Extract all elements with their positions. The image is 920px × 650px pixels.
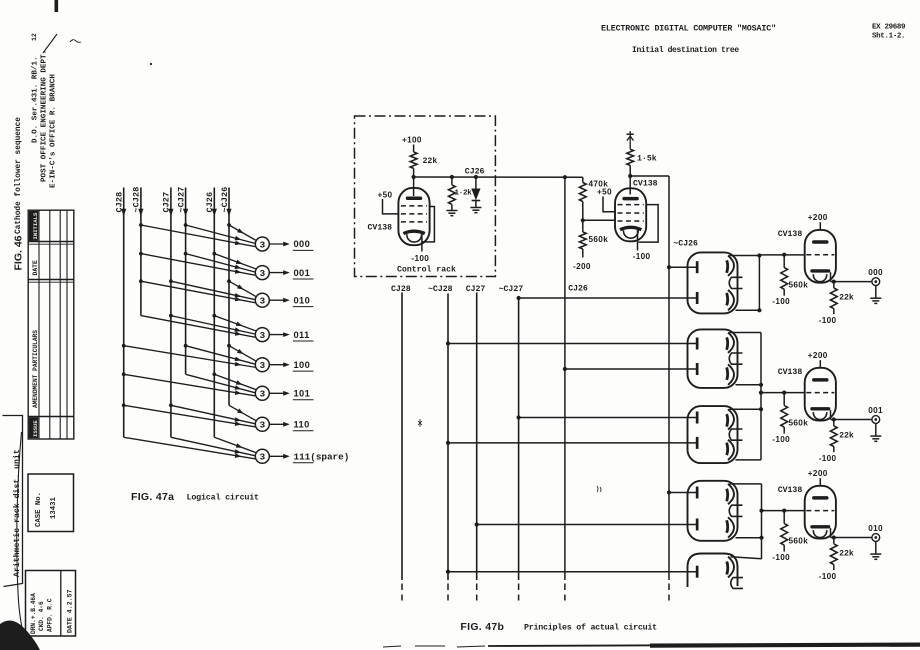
svg-text:22k: 22k xyxy=(839,431,854,441)
svg-text:-100: -100 xyxy=(819,572,837,581)
svg-text:1·2k: 1·2k xyxy=(455,190,473,198)
svg-text:010: 010 xyxy=(868,524,883,533)
wire: 22k to -100 stage 010 xyxy=(833,565,835,571)
wire: V3 cathode lead xyxy=(830,272,832,281)
wire: G4 lower cathode lead xyxy=(736,537,762,539)
wire: CJ28 to gate 101 xyxy=(122,372,256,396)
svg-text:001: 001 xyxy=(294,268,311,278)
wire: ~CJ27 to G3 anode 1 xyxy=(519,417,696,419)
gate circle 101 xyxy=(255,386,269,400)
svg-text:D.O. Ser.431. RB/1.: D.O. Ser.431. RB/1. xyxy=(32,56,40,143)
wire: grid node to R stage 010 xyxy=(783,511,785,524)
wire: ~CJ27 to gate 001 xyxy=(184,252,255,272)
wire: ~CJ28 continuation dashes xyxy=(447,584,449,601)
svg-text:560k: 560k xyxy=(789,537,809,546)
wire: V2 anode lead xyxy=(629,176,631,195)
ground (terminal 001) xyxy=(870,436,881,441)
svg-text:3: 3 xyxy=(259,420,265,431)
svg-text:CJ26: CJ26 xyxy=(205,192,215,213)
tube V3 CV138 (output cathode follower 000) xyxy=(805,230,836,283)
wire: node to D1 xyxy=(475,177,477,189)
gate circle 001 xyxy=(255,266,269,280)
svg-text:~CJ28: ~CJ28 xyxy=(132,187,142,213)
node: cathode/22k stage 000 xyxy=(832,280,836,284)
node: CJ26 bus tap xyxy=(563,175,567,179)
svg-text:22k: 22k xyxy=(839,293,854,303)
svg-text:000: 000 xyxy=(868,268,883,277)
svg-text:INITIALS: INITIALS xyxy=(32,212,39,239)
table header ISSUE (inverted cell) xyxy=(29,417,38,438)
output terminal 000 xyxy=(872,278,880,286)
svg-text:011: 011 xyxy=(294,330,310,340)
wire: V2 cathode lead xyxy=(637,230,639,251)
svg-text:-100: -100 xyxy=(411,254,429,263)
wire: output arrow 101 xyxy=(269,391,290,396)
svg-text:560k: 560k xyxy=(589,235,609,244)
wire: CJ26 to gate 101 xyxy=(212,372,255,389)
wire: G2 lower cathode lead xyxy=(736,384,762,386)
node: bus000 top xyxy=(757,253,761,257)
wire: node to R2 xyxy=(451,177,453,185)
resistor 22k (stage 001) xyxy=(830,426,837,447)
wire: cathode to terminal 010 xyxy=(831,537,873,539)
wire: grid line stage 000 xyxy=(759,254,804,256)
svg-text:FIG. 46: FIG. 46 xyxy=(13,235,25,270)
wire: CJ27 to gate 110 xyxy=(169,403,255,423)
wire: CJ27 continuation dashes xyxy=(476,584,478,601)
svg-text:000: 000 xyxy=(294,239,311,249)
wire: ~CJ27 to G1 anode 2 xyxy=(519,297,696,299)
wire: CJ26 to gate 111 xyxy=(214,437,255,452)
svg-text:CV138: CV138 xyxy=(633,179,658,188)
svg-text:~CJ27: ~CJ27 xyxy=(499,285,524,294)
svg-text:13431: 13431 xyxy=(50,496,58,519)
svg-text:CJ26: CJ26 xyxy=(465,168,485,177)
svg-text:FIG. 47a: FIG. 47a xyxy=(131,491,174,503)
wire: output arrow 011 xyxy=(269,332,290,337)
junction on CJ27 xyxy=(475,522,479,526)
svg-text:POST OFFICE ENGINEERING DEPT.: POST OFFICE ENGINEERING DEPT. xyxy=(41,50,49,182)
svg-text:560k: 560k xyxy=(789,281,809,290)
wire: bus line CJ27 xyxy=(476,293,478,581)
svg-text:~CJ26: ~CJ26 xyxy=(673,240,698,249)
resistor 560k (stage 000) xyxy=(781,268,788,290)
svg-text:CJ27: CJ27 xyxy=(162,192,172,213)
svg-text:FIG. 47b: FIG. 47b xyxy=(460,621,504,633)
speck xyxy=(70,40,81,43)
wire: CJ27 to gate 010 xyxy=(169,279,255,299)
svg-text:DRN.+.B.46A: DRN.+.B.46A xyxy=(30,593,37,634)
svg-text:Principles of actual circuit: Principles of actual circuit xyxy=(524,623,657,633)
wire: ~CJ28 to gate 001 xyxy=(139,252,255,276)
output terminal 010 xyxy=(872,534,880,542)
wire: ~CJ26 to gate 100 xyxy=(227,344,256,361)
resistor R4 560k xyxy=(579,232,586,249)
svg-text:3: 3 xyxy=(259,268,265,279)
wire: output arrow 000 xyxy=(269,242,290,247)
junction on ~CJ28 xyxy=(446,570,450,574)
wire: G3 upper cathode lead xyxy=(730,408,762,410)
wire: fig47a input line ~CJ27 xyxy=(183,188,188,375)
wire: output arrow 100 xyxy=(269,362,290,367)
svg-text:+100: +100 xyxy=(402,136,422,145)
svg-text:E-IN-C's OFFICE R. BRANCH: E-IN-C's OFFICE R. BRANCH xyxy=(50,74,58,188)
gate circle 011 xyxy=(255,328,269,342)
svg-text:22k: 22k xyxy=(423,156,438,166)
wire: CJ26 bus vertical xyxy=(564,177,566,580)
svg-text:+200: +200 xyxy=(808,213,828,222)
box: CASE No. 13431 xyxy=(28,474,74,532)
wire: ~CJ28 to G2 anode 1 xyxy=(448,343,696,345)
node label 100 xyxy=(293,360,314,371)
wire: fig47a input line ~CJ26 xyxy=(226,188,231,406)
resistor 22k (stage 000) xyxy=(830,288,837,309)
speck4 xyxy=(597,486,601,492)
node: 560k tap stage 001 xyxy=(782,391,786,395)
wire: terminal 000 to ground xyxy=(875,286,877,299)
svg-text:Logical circuit: Logical circuit xyxy=(187,493,260,503)
svg-text:3: 3 xyxy=(259,452,265,463)
node: bus001 grid tap xyxy=(759,391,763,395)
wire: +200 to V5 anode xyxy=(819,478,821,486)
wire: R3 to grid node xyxy=(582,202,584,233)
node: bus001/G3 upper xyxy=(759,407,763,411)
wire: terminal 010 to ground xyxy=(875,541,877,554)
ground (terminal 010) xyxy=(870,554,881,559)
wire: cathode to terminal 000 xyxy=(831,281,873,283)
svg-text:DATE: DATE xyxy=(32,260,39,276)
wire: G1 upper cathode lead xyxy=(730,255,760,257)
wire: ~CJ28 to G3 anode 2 xyxy=(448,442,696,444)
svg-text:110: 110 xyxy=(294,420,310,430)
gate tube G1 (double diode) xyxy=(688,252,743,313)
node label 010 xyxy=(293,295,314,306)
junction on ~CJ27 xyxy=(517,296,521,300)
speck2 xyxy=(150,63,152,65)
svg-text:CASE No.: CASE No. xyxy=(35,492,43,527)
svg-text:010: 010 xyxy=(294,295,311,305)
node: D1 tap xyxy=(474,175,478,179)
gate circle 100 xyxy=(255,358,269,372)
wire: 22k to -100 stage 000 xyxy=(833,309,835,315)
svg-text:CV138: CV138 xyxy=(368,224,393,233)
junction on ~CJ28 xyxy=(446,441,450,445)
wire: grid line stage 001 xyxy=(761,392,805,394)
wire: CJ26 output line xyxy=(414,176,583,178)
junction on ~CJ28 xyxy=(446,341,450,345)
wire: CJ26 bus continuation dashes xyxy=(564,584,566,601)
wire: ~CJ27 continuation dashes xyxy=(518,584,520,601)
svg-text:-100: -100 xyxy=(819,316,837,325)
wire: ~CJ28 to gate 000 xyxy=(139,223,255,247)
node: R2 tap xyxy=(450,175,454,179)
wire: CJ26 to G2 anode 2 xyxy=(565,368,696,370)
node: bus010 grid tap xyxy=(759,509,763,513)
gate circle 010 xyxy=(255,293,269,307)
resistor 560k (stage 010) xyxy=(781,524,788,546)
junction ~CJ26/pill4 xyxy=(667,490,671,494)
wire: ~CJ28 to gate 010 xyxy=(139,279,255,302)
svg-text:100: 100 xyxy=(294,360,311,370)
wire: ~CJ27 to gate 101 xyxy=(186,374,255,392)
wire: grid node to R stage 001 xyxy=(783,393,785,406)
wire: ~CJ26 to G4 anode 1 xyxy=(669,492,696,494)
wire: CJ28 continuation dashes xyxy=(401,584,403,601)
svg-text:~CJ27: ~CJ27 xyxy=(176,187,186,213)
gate circle 110 xyxy=(255,417,269,431)
wire: CJ27 to gate 011 xyxy=(169,314,255,334)
node: V1 anode / CJ26 origin xyxy=(412,175,416,179)
wire: output bus 001 xyxy=(760,333,762,460)
junction on ~CJ27 xyxy=(517,415,521,419)
wire: G2 upper cathode lead xyxy=(730,332,762,334)
wire: fig47a input line ~CJ28 xyxy=(138,188,143,316)
svg-text:EX 29689: EX 29689 xyxy=(872,24,906,32)
wire: ~CJ28 to G5 anode xyxy=(448,571,696,573)
diode D1 (crystal rectifier) xyxy=(471,189,480,201)
node: 560k tap stage 000 xyxy=(782,253,786,257)
svg-text:CV138: CV138 xyxy=(778,486,803,495)
gate circle 111 xyxy=(255,449,269,463)
svg-text:Control rack: Control rack xyxy=(397,265,456,275)
tube V2 (CV138 pentode) xyxy=(615,188,646,241)
gate tube G5 (half, continues off sheet) xyxy=(688,554,744,589)
svg-text:-100: -100 xyxy=(772,553,790,562)
wire: CJ26 to gate 001 xyxy=(212,252,255,269)
resistor R1 22k xyxy=(410,152,417,168)
node: bus001/G2 lower xyxy=(759,383,763,387)
wire: output arrow 110 xyxy=(269,422,290,427)
svg-text:560k: 560k xyxy=(789,419,809,428)
wire: bus line ~CJ27 xyxy=(518,296,520,580)
wire: ~CJ26 bus vertical xyxy=(668,176,670,580)
heavy bottom edge line xyxy=(383,645,920,647)
wire: G3 lower cathode lead xyxy=(736,459,762,461)
tube V5 CV138 (output cathode follower 010) xyxy=(805,486,836,539)
wire: 22k to -100 stage 001 xyxy=(833,447,835,453)
ground below R2 xyxy=(446,211,457,216)
svg-text:Cathode follower sequence: Cathode follower sequence xyxy=(15,117,23,234)
output terminal 001 xyxy=(872,416,880,424)
wire: G1 lower cathode lead xyxy=(736,309,760,311)
svg-text:CJ28: CJ28 xyxy=(391,285,411,294)
svg-text:CJ27: CJ27 xyxy=(466,285,486,294)
svg-text:+200: +200 xyxy=(808,469,828,478)
wire: ~CJ26 to G1 anode 1 xyxy=(669,266,696,268)
wire: fig47a input line CJ26 xyxy=(212,188,217,438)
wire: +50 to V2 screen xyxy=(603,197,615,212)
crease line xyxy=(17,432,27,646)
wire: ~CJ26 to gate 000 xyxy=(227,223,256,240)
svg-text:~CJ26: ~CJ26 xyxy=(220,187,230,213)
resistor R2 1·2k xyxy=(449,185,456,205)
ground below D1 xyxy=(470,208,481,213)
node label 000 xyxy=(293,239,314,250)
node: cathode/22k stage 001 xyxy=(832,417,836,421)
wire: bus line ~CJ28 xyxy=(447,294,449,581)
svg-text:~CJ28: ~CJ28 xyxy=(428,285,453,294)
wire: +100 to R1 xyxy=(413,145,415,153)
svg-text:ELECTRONIC DIGITAL COMPUTER "M: ELECTRONIC DIGITAL COMPUTER "MOSAIC" xyxy=(601,24,776,34)
svg-text:001: 001 xyxy=(868,406,883,415)
svg-text:CKD. 4-6: CKD. 4-6 xyxy=(38,601,45,631)
wire: CJ28 to gate 110 xyxy=(122,403,256,427)
wire: +50 to V1 grid xyxy=(383,199,399,214)
resistor 22k (stage 010) xyxy=(830,544,837,565)
svg-text:111(spare): 111(spare) xyxy=(294,452,350,463)
box: drawing approval (DRN/CKD/APFD/DATE) xyxy=(26,571,76,637)
wire: 22k lead stage 010 xyxy=(833,538,835,544)
wire: 22k lead stage 000 xyxy=(833,282,835,288)
wire: anode node to ~CJ26 bus xyxy=(630,175,669,177)
svg-text:3: 3 xyxy=(259,239,265,250)
node label 111(spare) xyxy=(293,452,349,463)
junction CJ26/pill2 xyxy=(563,367,567,371)
wire: V1 cathode lead xyxy=(421,234,423,252)
wire: ~CJ27 to gate 000 xyxy=(184,223,255,243)
amendment record table xyxy=(28,210,74,439)
table header INITIALS (inverted cell) xyxy=(29,211,38,241)
svg-text:+50: +50 xyxy=(597,188,612,197)
node: cathode/22k stage 010 xyxy=(832,535,836,539)
wire: ~CJ27 to gate 100 xyxy=(184,344,255,364)
wire: R5 to V2 anode node xyxy=(629,165,631,176)
control rack enclosure (dash-dot box) xyxy=(355,116,496,277)
wire: output bus 010 xyxy=(761,484,763,559)
wire: bus line CJ28 xyxy=(401,293,403,581)
svg-text:-100: -100 xyxy=(633,252,651,261)
wire: ~CJ26 bus continuation dashes xyxy=(668,584,670,601)
gate tube G2 (double diode) xyxy=(688,329,743,388)
resistor R5 1·5k xyxy=(627,149,634,165)
wire: G4 upper cathode lead xyxy=(730,483,762,485)
svg-text:+50: +50 xyxy=(378,190,393,199)
svg-text:-200: -200 xyxy=(573,262,591,271)
svg-text:3: 3 xyxy=(259,296,265,307)
ink blob bottom-left corner xyxy=(0,621,40,650)
wire: 22k lead stage 001 xyxy=(833,420,835,426)
wire: output arrow 001 xyxy=(269,270,290,275)
svg-text:CJ28: CJ28 xyxy=(115,192,125,213)
wire: ~CJ26 to gate 010 xyxy=(227,279,256,296)
tube V1 (CV138 pentode) xyxy=(398,188,429,245)
wire: grid line stage 010 xyxy=(762,510,805,512)
wire: +200 to V3 anode xyxy=(819,222,821,230)
svg-text:3: 3 xyxy=(259,389,265,400)
node: V2 grid divider xyxy=(581,218,585,222)
wire: output arrow 111 xyxy=(269,454,290,459)
wire: +200 to V4 anode xyxy=(819,360,821,368)
gate tube G3 (double diode) xyxy=(688,406,743,463)
top-left edge mark xyxy=(55,0,59,12)
svg-text:ISSUE: ISSUE xyxy=(32,420,39,437)
wire: R2 to ground xyxy=(451,204,453,210)
svg-text:12: 12 xyxy=(31,33,38,41)
wire: V4 cathode lead xyxy=(830,410,832,419)
svg-text:Sht.1-2.: Sht.1-2. xyxy=(872,33,905,41)
svg-text:1·5k: 1·5k xyxy=(637,154,657,164)
node label 011 xyxy=(293,330,314,341)
off-sheet supply symbol above R5 xyxy=(627,131,634,149)
wire: V1 anode lead xyxy=(413,177,415,196)
svg-text:22k: 22k xyxy=(839,549,854,559)
svg-text:101: 101 xyxy=(294,389,311,399)
wire: cathode to terminal 001 xyxy=(831,419,873,421)
node: V2 anode xyxy=(628,174,632,178)
box: Arithmetic rack dist. unit xyxy=(3,416,23,587)
svg-text:-100: -100 xyxy=(772,435,790,444)
svg-text:-100: -100 xyxy=(772,297,790,306)
wire: V1 suppressor tie xyxy=(422,207,434,242)
wire: D1 to ground xyxy=(475,201,477,208)
svg-text:Initial destination tree: Initial destination tree xyxy=(632,46,739,55)
scratch mark xyxy=(43,34,57,53)
wire: ~CJ26 to gate 110 xyxy=(229,405,256,420)
wire: output arrow 010 xyxy=(269,298,290,303)
wire: CJ26 to gate 011 xyxy=(212,314,255,331)
svg-text:DATE 4.2.57: DATE 4.2.57 xyxy=(67,589,74,633)
gate circle 000 xyxy=(255,237,269,251)
svg-text:-100: -100 xyxy=(819,454,837,463)
wire: CJ27 to G4 anode 2 xyxy=(477,524,696,526)
tube V4 CV138 (output cathode follower 001) xyxy=(805,368,836,421)
wire: G5 cathode lead xyxy=(731,557,762,559)
wire: R1 to anode node xyxy=(413,168,415,177)
wire: fig47a input line CJ28 xyxy=(121,188,126,438)
resistor R3 470k xyxy=(579,183,586,202)
wire: output bus 000 xyxy=(758,256,760,311)
wire: V2 suppressor tie xyxy=(639,205,659,243)
node label 001 xyxy=(293,268,314,279)
ground (terminal 000) xyxy=(870,298,881,303)
wire: CJ27 to gate 111 xyxy=(171,437,255,455)
wire: grid node to V2 xyxy=(583,219,615,221)
svg-text:CV138: CV138 xyxy=(778,368,803,377)
gate tube G4 (double diode) xyxy=(688,481,743,541)
resistor 560k (stage 001) xyxy=(781,406,788,428)
node: 560k tap stage 010 xyxy=(782,509,786,513)
svg-text:3: 3 xyxy=(259,360,265,371)
wire: grid node to R stage 000 xyxy=(783,255,785,268)
svg-text:CV138: CV138 xyxy=(778,230,803,239)
wire: 560k to -100 stage 001 xyxy=(783,427,785,434)
wire: CJ28 to gate 100 xyxy=(122,344,256,367)
junction ~CJ26/pill1 xyxy=(667,265,671,269)
wire: CJ28 to gate 111 xyxy=(124,437,256,459)
wire: 560k to -100 stage 010 xyxy=(783,545,785,552)
wire: ~CJ28 to gate 011 xyxy=(141,316,255,338)
wire: CJ26 line into R3 xyxy=(582,177,584,182)
svg-text:CJ26: CJ26 xyxy=(568,285,588,294)
speck3 xyxy=(418,419,422,427)
wire: R4 to -200 xyxy=(582,249,584,258)
node label 101 xyxy=(293,389,314,400)
svg-text:AMENDMENT PARTICULARS: AMENDMENT PARTICULARS xyxy=(32,330,39,408)
wire: fig47a input line CJ27 xyxy=(168,188,173,438)
node: bus010/G4 lower xyxy=(759,536,763,540)
wire: 560k to -100 stage 000 xyxy=(783,289,785,296)
node label 110 xyxy=(293,420,314,431)
wire: V5 cathode lead xyxy=(830,528,832,537)
svg-text:+200: +200 xyxy=(808,351,828,360)
node: bus000 bottom xyxy=(757,308,761,312)
wire: terminal 001 to ground xyxy=(875,423,877,436)
svg-text:3: 3 xyxy=(259,330,265,341)
svg-text:APFD. R.C: APFD. R.C xyxy=(47,598,54,632)
